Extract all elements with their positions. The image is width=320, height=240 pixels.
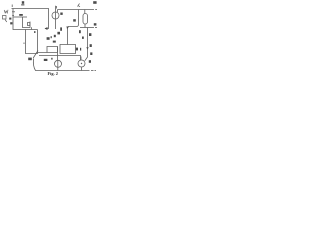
svg-text:Fig. 2: Fig. 2 <box>48 71 59 76</box>
